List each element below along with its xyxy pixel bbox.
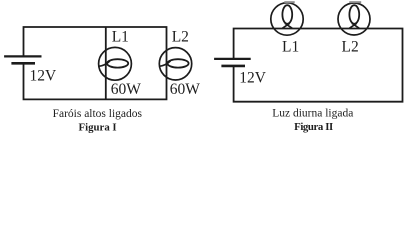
svg-text:60W: 60W bbox=[111, 81, 142, 98]
svg-text:Luz diurna ligada: Luz diurna ligada bbox=[272, 108, 353, 120]
svg-text:L1: L1 bbox=[282, 39, 299, 56]
svg-text:L2: L2 bbox=[172, 29, 189, 46]
svg-text:Figura I: Figura I bbox=[79, 121, 117, 133]
svg-text:12V: 12V bbox=[239, 69, 266, 86]
svg-text:Figura II: Figura II bbox=[294, 121, 333, 133]
svg-text:12V: 12V bbox=[30, 68, 58, 85]
svg-text:Faróis altos ligados: Faróis altos ligados bbox=[53, 108, 143, 120]
svg-text:L1: L1 bbox=[112, 29, 129, 46]
svg-text:60W: 60W bbox=[170, 81, 201, 98]
svg-text:L2: L2 bbox=[342, 39, 359, 56]
